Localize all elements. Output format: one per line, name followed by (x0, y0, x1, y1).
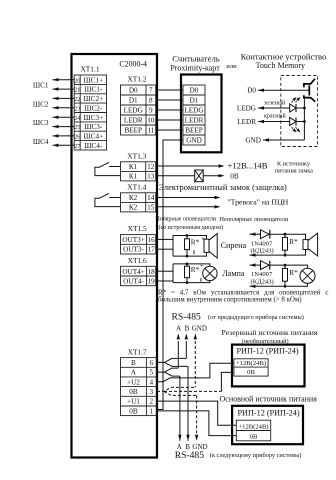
svg-text:Сирена: Сирена (221, 241, 247, 250)
wire RS-485 A up (177, 341, 179, 368)
wire pin5 A to bus A up (157, 368, 178, 372)
terminal block XT1.4 (121, 183, 156, 212)
svg-text:23: 23 (74, 105, 80, 112)
svg-text:Touch Memory: Touch Memory (256, 61, 305, 70)
wire ШС loop terminal 27 (53, 144, 75, 146)
wire diode to speaker nonpolar (270, 234, 306, 239)
svg-text:A: A (131, 369, 137, 377)
svg-text:ШС4-: ШС4- (84, 142, 103, 150)
svg-text:питания замка: питания замка (275, 168, 313, 175)
svg-text:LEDG: LEDG (124, 107, 143, 115)
wire touch ground bus (303, 98, 305, 140)
svg-text:6: 6 (150, 359, 154, 367)
svg-text:3: 3 (150, 388, 154, 396)
wire RS-485 A down (179, 376, 181, 441)
svg-text:LEDG: LEDG (237, 104, 256, 112)
svg-text:OUT3-: OUT3- (123, 246, 144, 254)
svg-text:5: 5 (150, 369, 154, 377)
wire pin3 0В to bus GND up (157, 387, 195, 391)
wire pin3 0В toward reserve supply (164, 390, 221, 392)
wire K1 pin13 through lock (157, 175, 195, 177)
svg-text:BEEP: BEEP (124, 127, 142, 135)
svg-text:D0: D0 (247, 87, 256, 95)
wire pin6 B to bus B up (157, 358, 186, 362)
svg-text:Электромагнитный замок (защелк: Электромагнитный замок (защелка) (159, 183, 287, 192)
wire pin6 B to bus B down (165, 362, 189, 366)
wire nonpolar siren bottom (250, 250, 306, 256)
svg-text:26: 26 (74, 134, 80, 141)
wire XT1.2 pin 7 to reader (157, 89, 183, 91)
svg-text:+U2: +U2 (127, 378, 140, 386)
wire pin4 +U2 to reserve supply (157, 363, 234, 382)
PSU main terminals (236, 420, 270, 441)
resistor R* (lamp, nonpolar) (283, 265, 288, 286)
svg-text:Полярные оповещатели: Полярные оповещатели (156, 216, 217, 222)
svg-text:зеленый: зеленый (264, 99, 286, 106)
svg-text:Proximity-карт: Proximity-карт (170, 63, 220, 72)
svg-text:25: 25 (74, 124, 80, 131)
wire pin1 0В to main supply (157, 411, 236, 436)
speaker siren (polar) (204, 234, 217, 258)
terminal block XT1.5 (121, 224, 156, 254)
svg-text:OUT4+: OUT4+ (122, 268, 144, 276)
svg-text:12: 12 (147, 163, 155, 171)
svg-text:XT1.6: XT1.6 (128, 256, 147, 265)
svg-text:ШС1: ШС1 (33, 82, 49, 90)
svg-text:ШС2+: ШС2+ (83, 95, 103, 103)
relay contact K2 (95, 193, 121, 206)
svg-text:8: 8 (149, 97, 153, 105)
svg-text:14: 14 (147, 194, 155, 202)
wire K2 pin14 alarm (157, 197, 217, 199)
svg-text:(от предыдущего прибора систем: (от предыдущего прибора системы) (208, 314, 304, 321)
wire pin5 A to bus A down (165, 372, 180, 376)
svg-text:К источнику: К источнику (277, 161, 311, 168)
svg-text:22: 22 (74, 96, 80, 103)
touch memory probe contact (304, 79, 315, 102)
svg-text:К2: К2 (129, 204, 138, 212)
svg-text:Контактное устройство: Контактное устройство (241, 51, 327, 61)
svg-text:RS-485: RS-485 (175, 450, 205, 461)
svg-text:R* = 4,7 кОм устанавливается: R* = 4,7 кОм устанавливается для оповеща… (158, 290, 328, 297)
wire XT1.2 pin 10 to reader (157, 119, 183, 121)
wire XT1.2 pin 8 to reader (157, 99, 183, 101)
lamp (polar) (203, 266, 217, 280)
wire ШС loop terminal 22 (53, 97, 75, 99)
wire OUT3- to siren loop (157, 248, 173, 250)
resistor R* (siren, nonpolar) (283, 234, 288, 255)
svg-text:B: B (185, 325, 190, 333)
svg-text:Лампа: Лампа (222, 269, 245, 278)
wire pin2 +U1 to main supply (157, 401, 236, 425)
relay contact K1 (95, 162, 121, 175)
svg-text:+12В...14В: +12В...14В (228, 161, 268, 171)
svg-text:0В: 0В (247, 369, 255, 376)
svg-text:красный: красный (264, 113, 286, 120)
wire ШС loop terminal 20 (53, 79, 75, 81)
svg-text:7: 7 (149, 87, 153, 95)
svg-text:+U1: +U1 (127, 398, 140, 406)
svg-text:LEDG: LEDG (184, 107, 203, 115)
svg-text:9: 9 (149, 107, 153, 115)
resistor R* (siren, polar) (185, 236, 190, 257)
svg-text:1: 1 (150, 407, 154, 415)
svg-text:XT1.1: XT1.1 (80, 65, 99, 74)
svg-text:ШС2-: ШС2- (84, 104, 103, 112)
svg-text:GND: GND (245, 136, 261, 144)
wire ШС loop terminal 26 (53, 135, 75, 137)
svg-text:18: 18 (148, 268, 156, 276)
svg-text:Считыватель: Считыватель (172, 54, 219, 64)
svg-text:A: A (176, 325, 181, 333)
lamp (nonpolar) (300, 268, 315, 283)
svg-text:1N4007: 1N4007 (251, 271, 273, 278)
svg-text:B: B (131, 359, 136, 367)
svg-text:15: 15 (147, 204, 155, 212)
svg-text:GND: GND (186, 137, 202, 145)
svg-text:РИП-12 (РИП-24): РИП-12 (РИП-24) (237, 346, 299, 355)
svg-text:LEDR: LEDR (237, 118, 256, 126)
wire OUT4- to lamp loop (157, 280, 173, 282)
svg-text:К1: К1 (129, 163, 138, 171)
wire siren loop left side (172, 236, 174, 257)
svg-text:24: 24 (74, 115, 80, 122)
wire lamp loop left side (172, 264, 174, 283)
svg-text:D0: D0 (190, 87, 199, 95)
svg-text:R*: R* (289, 238, 298, 246)
svg-text:D1: D1 (190, 97, 199, 105)
wire K2 pin15 alarm (157, 206, 217, 208)
svg-text:К1: К1 (129, 173, 138, 181)
svg-text:0В: 0В (129, 407, 138, 415)
svg-text:ШС1-: ШС1- (84, 86, 103, 94)
svg-text:РИП-12 (РИП-24): РИП-12 (РИП-24) (238, 409, 300, 418)
svg-text:4: 4 (150, 378, 154, 386)
wire ШС loop terminal 21 (53, 88, 75, 90)
svg-text:(КД243): (КД243) (251, 248, 274, 255)
svg-text:ШС1+: ШС1+ (83, 76, 103, 84)
svg-text:0В: 0В (250, 433, 258, 440)
svg-text:R*: R* (191, 266, 200, 274)
wire GND (touch) (263, 139, 304, 141)
svg-text:XT1.4: XT1.4 (127, 183, 146, 192)
wire XT1.2 pin 11 to reader (157, 129, 183, 131)
svg-text:Резервный источник питания: Резервный источник питания (222, 328, 318, 337)
svg-text:(КД243): (КД243) (251, 279, 274, 286)
svg-text:+12В(24В): +12В(24В) (236, 360, 266, 367)
svg-text:17: 17 (148, 246, 156, 254)
svg-text:1N4007: 1N4007 (251, 240, 273, 247)
wire ШС loop terminal 24 (53, 116, 75, 118)
reader terminal strip (183, 85, 205, 145)
svg-text:11: 11 (147, 127, 154, 135)
svg-text:GND: GND (192, 325, 207, 333)
svg-text:RS-485: RS-485 (172, 312, 202, 323)
wire pin3 0В to bus GND down (164, 391, 197, 395)
wire K1 pin12 +12V to lock supply (157, 165, 221, 167)
svg-text:(к следующему прибору системы): (к следующему прибору системы) (210, 452, 302, 459)
svg-text:21: 21 (74, 87, 80, 94)
terminal block XT1.7 (121, 348, 157, 416)
wire lamp loop top rail (173, 264, 210, 266)
svg-text:BEEP: BEEP (185, 127, 203, 135)
reader Proximity box (181, 75, 222, 153)
device C2000-4 enclosure box (72, 54, 158, 458)
wire XT1.2 pin 9 to reader (157, 109, 183, 111)
svg-text:0В: 0В (129, 388, 138, 396)
svg-text:13: 13 (147, 173, 155, 181)
svg-text:OUT4-: OUT4- (123, 278, 144, 286)
wire lock to 0В (203, 175, 220, 177)
diode 1N4007 (lamp) (261, 261, 270, 270)
svg-text:(со встроенным диодом): (со встроенным диодом) (159, 224, 224, 231)
terminal block XT1.2 (121, 75, 156, 136)
svg-text:27: 27 (74, 143, 80, 150)
wire reader GND to 0В pin 1 (157, 140, 183, 410)
diode 1N4007 (siren) (261, 230, 270, 239)
wire ШС loop terminal 25 (53, 126, 75, 128)
svg-text:2: 2 (150, 398, 154, 406)
svg-text:C2000-4: C2000-4 (119, 60, 147, 69)
svg-text:OUT3+: OUT3+ (122, 236, 144, 244)
svg-text:0В: 0В (230, 172, 239, 180)
wire 0В into reserve supply (221, 372, 234, 391)
svg-text:D0: D0 (129, 87, 138, 95)
svg-text:большим внутренним сопротивлен: большим внутренним сопротивлением (> 8 к… (158, 297, 302, 304)
svg-text:XT1.2: XT1.2 (127, 75, 146, 84)
svg-text:R*: R* (191, 239, 200, 247)
wire RS-485 B down (187, 366, 189, 440)
wire OUT3+ to siren loop (157, 238, 173, 240)
svg-text:ШС3+: ШС3+ (83, 114, 103, 122)
wire D0 to probe (258, 89, 309, 91)
PSU reserve РИП-12 box (232, 345, 305, 387)
wire nonpolar lamp top to diode (250, 264, 262, 266)
LED red (290, 117, 305, 132)
terminal block XT1.1 (74, 65, 106, 151)
wire siren loop top rail (173, 236, 207, 240)
svg-text:Неполярные оповещатели: Неполярные оповещатели (220, 216, 289, 223)
svg-text:XT1.3: XT1.3 (127, 152, 146, 161)
PSU main РИП-12 box (232, 406, 303, 444)
svg-text:D1: D1 (129, 97, 138, 105)
svg-text:XT1.5: XT1.5 (128, 224, 147, 233)
svg-text:ШС2: ШС2 (33, 100, 49, 108)
terminal block XT1.3 (121, 152, 156, 181)
wire nonpolar lamp bottom (250, 283, 308, 286)
svg-text:или: или (226, 63, 237, 70)
touch memory dashed box (281, 76, 318, 147)
svg-text:20: 20 (74, 77, 80, 84)
electromagnetic lock (solenoid) (195, 170, 204, 182)
wire LEDR to red LED (258, 121, 290, 123)
svg-text:LEDR: LEDR (185, 117, 204, 125)
svg-text:ШС3: ШС3 (33, 119, 49, 127)
svg-text:XT1.7: XT1.7 (128, 348, 147, 357)
svg-text:Основной источник питания: Основной источник питания (220, 394, 318, 403)
wire lamp loop bottom rail (173, 281, 210, 283)
svg-text:LEDR: LEDR (124, 117, 143, 125)
wire OUT4+ to lamp loop (157, 270, 173, 272)
svg-text:"Тревога" на ПЦН: "Тревога" на ПЦН (228, 197, 289, 206)
wire nonpolar siren top to diode (250, 233, 262, 235)
wire siren loop bottom rail (173, 252, 207, 256)
wire LEDG to green LED (258, 107, 290, 109)
svg-text:16: 16 (148, 236, 156, 244)
resistor R* (lamp, polar) (185, 264, 190, 283)
speaker siren (nonpolar) (303, 233, 318, 256)
svg-text:+: + (200, 262, 204, 270)
wire ШС loop terminal 23 (53, 107, 75, 109)
wire diode to lamp nonpolar (270, 265, 308, 268)
svg-text:ШС4: ШС4 (33, 138, 49, 146)
wire RS-485 B up (185, 341, 187, 358)
svg-text:R*: R* (289, 269, 298, 277)
svg-text:К2: К2 (129, 194, 138, 202)
svg-text:+12В(24В): +12В(24В) (238, 423, 268, 430)
wire RS-485 GND down (196, 395, 198, 434)
wire RS-485 GND up (194, 341, 196, 387)
svg-text:ШС3-: ШС3- (84, 123, 103, 131)
terminal block XT1.6 (121, 256, 156, 286)
svg-text:19: 19 (148, 278, 156, 286)
LED green (290, 97, 305, 112)
PSU reserve terminals (234, 359, 268, 376)
svg-text:10: 10 (147, 117, 155, 125)
svg-text:ШС4+: ШС4+ (83, 133, 103, 141)
